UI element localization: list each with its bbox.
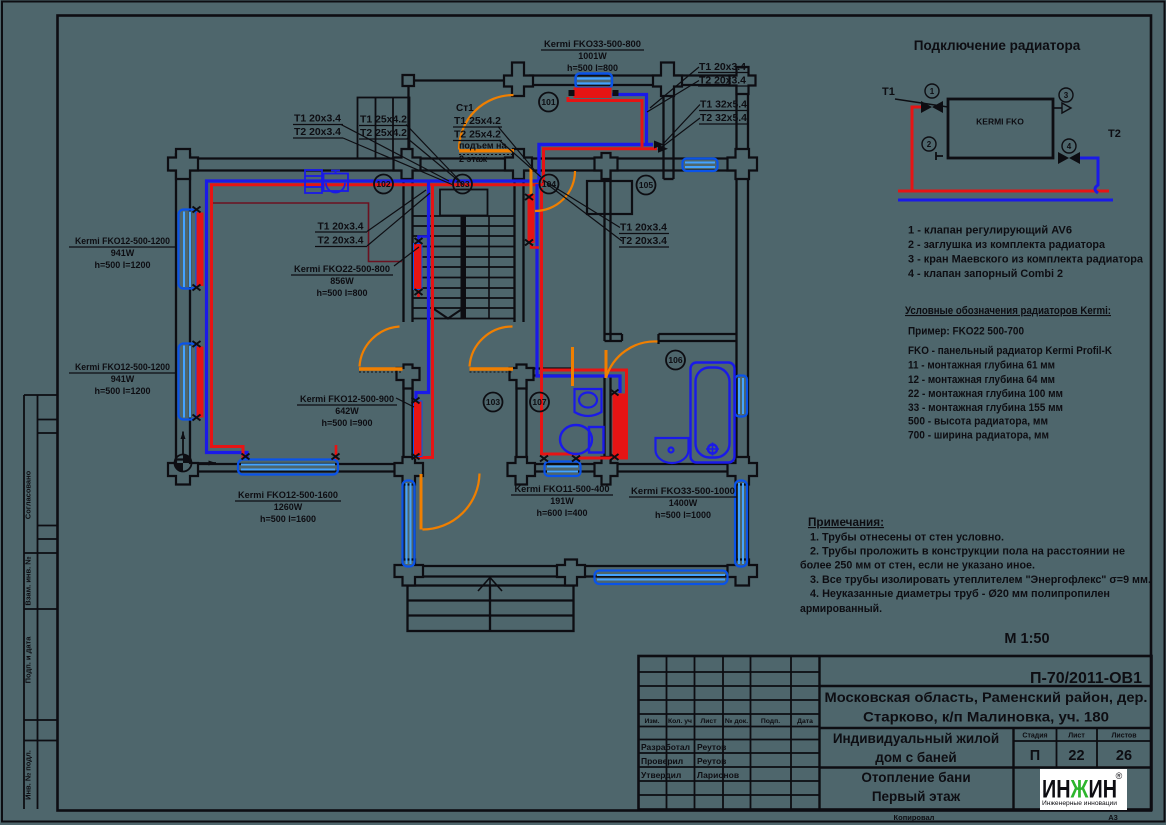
door arc room101 <box>459 95 514 150</box>
svg-text:Пример: FKO22 500-700: Пример: FKO22 500-700 <box>908 326 1024 338</box>
svg-text:h=500 l=900: h=500 l=900 <box>321 418 372 428</box>
pipe riser pair down to WC blue <box>537 184 620 393</box>
wall: right outer <box>735 85 737 578</box>
supply pipe stub <box>895 99 948 107</box>
wall: hall/room105 divider <box>603 171 605 342</box>
svg-text:22 - монтажная глубина 100 мм: 22 - монтажная глубина 100 мм <box>908 388 1063 400</box>
svg-text:1400W: 1400W <box>669 498 698 508</box>
fixture: bathtub <box>691 363 735 463</box>
svg-text:Т2 25х4.2: Т2 25х4.2 <box>454 130 501 141</box>
svg-text:Т2: Т2 <box>1108 128 1121 140</box>
steps entry arrow <box>489 577 491 586</box>
svg-text:Kermi FKO11-500-400: Kermi FKO11-500-400 <box>515 484 610 494</box>
svg-text:Т1 32х5.4: Т1 32х5.4 <box>700 100 747 111</box>
wall: stair left upper <box>402 171 404 323</box>
radiator FKO22-500-800 (stair) red bar <box>414 244 423 290</box>
svg-text:Реутов: Реутов <box>697 742 726 752</box>
svg-text:подъем на: подъем на <box>459 141 507 151</box>
vent valve 3 <box>1059 88 1073 102</box>
fixture: WC sink <box>575 389 602 416</box>
fixture: bath sink <box>656 438 689 463</box>
svg-text:Ст1: Ст1 <box>456 103 474 114</box>
radiator FKO33-500-800 (room 101) <box>569 74 619 99</box>
svg-text:дом с баней: дом с баней <box>875 750 956 765</box>
radiator label FKO22-500-800 <box>294 264 390 298</box>
svg-text:12 - монтажная глубина 64 мм: 12 - монтажная глубина 64 мм <box>908 374 1055 386</box>
radiator label FKO11-500-400 <box>515 484 610 518</box>
svg-text:1260W: 1260W <box>274 502 303 512</box>
svg-text:101: 101 <box>541 97 555 107</box>
pipe T2 main loop blue (left wall + top) <box>207 181 539 459</box>
svg-text:3. Все трубы изолировать утепл: 3. Все трубы изолировать утеплителем "Эн… <box>810 574 1151 586</box>
svg-text:Т1 25х4.2: Т1 25х4.2 <box>454 116 501 127</box>
svg-text:Т2 20х3.4: Т2 20х3.4 <box>620 236 667 247</box>
fixture: toilet <box>560 425 604 454</box>
svg-text:Взам. инв. №: Взам. инв. № <box>24 556 33 605</box>
numbered legend <box>908 225 1144 281</box>
steps box <box>408 586 574 632</box>
plug 2 <box>922 137 936 151</box>
svg-text:941W: 941W <box>111 248 135 258</box>
svg-text:Kermi FKO12-500-1200: Kermi FKO12-500-1200 <box>75 362 170 372</box>
svg-text:Подключение радиатора: Подключение радиатора <box>914 38 1081 53</box>
svg-text:107: 107 <box>532 397 546 407</box>
blue return run <box>898 158 1113 200</box>
svg-text:h=500 l=1600: h=500 l=1600 <box>260 514 316 524</box>
svg-text:Подп.: Подп. <box>761 718 780 725</box>
pipe label pair L6 <box>318 222 364 247</box>
svg-text:Согласовано: Согласовано <box>24 470 33 519</box>
svg-text:Т2 32х5.4: Т2 32х5.4 <box>700 113 747 124</box>
wall: between 101 and 105 <box>662 85 664 171</box>
maroon 2nd floor outline <box>212 203 403 262</box>
svg-text:Т2 20х3.4: Т2 20х3.4 <box>294 127 341 138</box>
wall: left outer line <box>175 153 177 472</box>
leader lines <box>341 67 700 407</box>
svg-text:h=500 l=800: h=500 l=800 <box>316 288 367 298</box>
radiator FKO11-500-400 (WC) <box>545 462 581 477</box>
svg-text:®: ® <box>1116 771 1123 781</box>
valve assembly on top pipe run <box>305 170 348 193</box>
svg-text:Копировал: Копировал <box>894 813 935 822</box>
pipe label pair L5 <box>700 100 747 125</box>
valve X marks <box>193 194 619 462</box>
stair down arrow <box>431 307 465 319</box>
svg-text:Kermi FKO12-500-1200: Kermi FKO12-500-1200 <box>75 236 170 246</box>
svg-text:Т2 25х4.2: Т2 25х4.2 <box>360 128 407 139</box>
red supply run <box>898 107 1109 191</box>
wall: bottom-left inner <box>170 463 411 465</box>
svg-text:2 этаж: 2 этаж <box>459 154 488 164</box>
svg-text:191W: 191W <box>550 496 574 506</box>
pipe room101 red loop <box>568 97 642 147</box>
door entrance leaf <box>420 474 423 530</box>
svg-text:3 - кран Маевского из комплект: 3 - кран Маевского из комплекта радиатор… <box>908 254 1144 266</box>
radiator label FKO12-500-1200 lower <box>75 362 170 396</box>
svg-text:Т2 20х3.4: Т2 20х3.4 <box>699 76 746 87</box>
svg-text:h=500 l=800: h=500 l=800 <box>567 63 618 73</box>
pipe label pair L4 <box>699 62 746 87</box>
svg-text:Отопление бани: Отопление бани <box>861 770 970 785</box>
radiator label FKO12-500-1600 <box>238 490 338 524</box>
svg-text:11 - монтажная глубина 61 мм: 11 - монтажная глубина 61 мм <box>908 360 1055 372</box>
pipe red stub at bottom radiator right <box>335 445 338 460</box>
door bath leaf <box>605 350 608 378</box>
stair handrail line <box>488 216 490 318</box>
svg-text:Kermi FKO33-500-800: Kermi FKO33-500-800 <box>544 39 641 49</box>
title block grid <box>639 656 1152 810</box>
wall: bottom-right segment <box>514 463 748 465</box>
svg-text:Т2 20х3.4: Т2 20х3.4 <box>318 236 364 247</box>
svg-text:Реутов: Реутов <box>697 756 726 766</box>
svg-text:2 - заглушка из комплекта ради: 2 - заглушка из комплекта радиатора <box>908 239 1106 251</box>
door WC leaf <box>571 347 574 386</box>
svg-text:более 250 мм от стен, если не: более 250 мм от стен, если не указано ин… <box>800 560 1035 572</box>
svg-text:Т1: Т1 <box>882 86 895 98</box>
pipe room101 blue loop <box>612 95 647 144</box>
svg-text:Kermi FKO22-500-800: Kermi FKO22-500-800 <box>294 264 390 274</box>
svg-text:Изм.: Изм. <box>644 718 659 725</box>
wall: main top outer line <box>170 157 748 159</box>
wall: stair right upper <box>513 171 515 323</box>
radiator label FKO33-500-800 top <box>544 39 641 73</box>
wall: jamb L near bath door <box>605 333 623 335</box>
svg-text:Стадия: Стадия <box>1022 733 1047 740</box>
INJIN logo <box>1040 769 1127 810</box>
pipe label pair L2 (outside stairs) <box>360 115 407 140</box>
svg-text:Ларионов: Ларионов <box>697 770 739 780</box>
svg-text:2: 2 <box>927 140 932 149</box>
svg-text:1 - клапан регулирующий AV6: 1 - клапан регулирующий AV6 <box>908 225 1072 237</box>
title block outer box <box>639 656 1152 810</box>
door entrance arc <box>423 474 480 530</box>
svg-text:№ док.: № док. <box>725 718 748 725</box>
svg-text:h=500 l=1000: h=500 l=1000 <box>655 510 711 520</box>
pipe riser pair down to WC red <box>542 188 627 458</box>
radiator FKO12-500-1200 upper left <box>179 210 204 289</box>
svg-text:Т1 20х3.4: Т1 20х3.4 <box>294 114 341 125</box>
svg-text:Т1 25х4.2: Т1 25х4.2 <box>360 115 407 126</box>
svg-text:102: 102 <box>376 179 390 189</box>
door bath arc <box>606 341 658 378</box>
pipe hall radiator stub <box>531 244 539 248</box>
svg-text:4: 4 <box>1067 142 1072 151</box>
svg-text:Т1 20х3.4: Т1 20х3.4 <box>699 62 746 73</box>
svg-text:Инв. № подл.: Инв. № подл. <box>24 750 33 800</box>
pipe label pair L8 <box>620 223 667 248</box>
radiator FKO12-500-1600 bottom <box>238 460 338 475</box>
svg-text:Примечания:: Примечания: <box>808 517 884 529</box>
wall: WC top <box>517 367 574 369</box>
svg-text:500 - высота радиатора, мм: 500 - высота радиатора, мм <box>908 416 1048 428</box>
insulated pipe porch left (blue) <box>403 481 415 567</box>
svg-text:Проверил: Проверил <box>641 756 683 766</box>
stair treads <box>413 216 514 319</box>
pipe FKO22 blue connector <box>419 237 429 244</box>
svg-text:3: 3 <box>1064 91 1069 100</box>
wall: room101 left <box>407 85 409 159</box>
radiator label FKO12-500-900 <box>300 394 394 428</box>
svg-text:Kermi FKO12-500-1600: Kermi FKO12-500-1600 <box>238 490 338 500</box>
svg-text:22: 22 <box>1068 748 1084 764</box>
wall: hall right lower <box>515 371 517 464</box>
svg-text:h=500 l=1200: h=500 l=1200 <box>94 260 150 270</box>
radiator small top right wall <box>683 159 718 172</box>
svg-text:Лист: Лист <box>1068 733 1085 740</box>
svg-text:Подп. и дата: Подп. и дата <box>24 636 33 684</box>
log-joint pluses <box>168 63 757 586</box>
pipe FKO22 red stub <box>417 289 420 297</box>
svg-text:1. Трубы отнесены от стен усло: 1. Трубы отнесены от стен условно. <box>810 532 1004 544</box>
radiator label FKO33-500-1000 <box>631 486 735 520</box>
svg-text:Кол. уч: Кол. уч <box>668 718 692 725</box>
valve 4 <box>1062 139 1076 153</box>
svg-text:700 - ширина радиатора, мм: 700 - ширина радиатора, мм <box>908 430 1049 442</box>
pipe center blue drop <box>416 182 429 401</box>
svg-text:4 - клапан запорный Combi 2: 4 - клапан запорный Combi 2 <box>908 268 1063 280</box>
svg-text:Т1 20х3.4: Т1 20х3.4 <box>620 223 667 234</box>
left column table <box>24 394 58 396</box>
wall: porch bottom <box>397 565 753 567</box>
room number circles <box>374 93 685 412</box>
svg-text:М 1:50: М 1:50 <box>1004 631 1049 647</box>
svg-text:А3: А3 <box>1108 813 1118 822</box>
wall: WC/bath divider lower <box>603 375 605 464</box>
svg-text:h=500 l=1200: h=500 l=1200 <box>94 386 150 396</box>
title block small header texts <box>644 718 813 725</box>
door hall/105 arc <box>535 171 575 211</box>
radiator bath FKO33-500-1000 red bar <box>613 394 626 458</box>
svg-text:Kermi FKO33-500-1000: Kermi FKO33-500-1000 <box>631 486 735 496</box>
svg-text:Московская область, Раменский: Московская область, Раменский район, дер… <box>825 690 1148 705</box>
pipe WC red lower branch <box>542 370 578 454</box>
valve 1 <box>921 101 943 113</box>
wall: bottom-left outer <box>170 470 411 472</box>
stair landing box <box>440 190 488 216</box>
radiator FKO12-500-900 red bar <box>414 401 423 457</box>
svg-text:33 - монтажная глубина 155 мм: 33 - монтажная глубина 155 мм <box>908 402 1063 414</box>
svg-text:105: 105 <box>639 180 653 190</box>
svg-text:Т1 20х3.4: Т1 20х3.4 <box>318 222 364 233</box>
outside staircase to 2nd floor <box>358 98 410 159</box>
radiator FKO12-500-1200 lower left <box>179 344 204 420</box>
bath right small radiator (blue) <box>735 376 747 417</box>
svg-text:Листов: Листов <box>1111 733 1137 740</box>
wall: stair left lower (door jamb to room) <box>402 371 404 464</box>
trunk arrowheads <box>654 141 664 149</box>
insulated pipe bottom right vertical (blue) <box>735 481 747 567</box>
wall: main top inner line <box>170 169 748 171</box>
svg-text:941W: 941W <box>111 374 135 384</box>
pipe center red drop <box>416 185 433 458</box>
fixture: washing machine room105 <box>587 181 632 214</box>
door leaf room101 <box>459 149 514 152</box>
pipe trunk red T1 32x5.4 <box>544 149 658 185</box>
door room103 leaf <box>359 367 403 370</box>
svg-text:Условные обозначения радиаторо: Условные обозначения радиаторов Kermi: <box>905 305 1111 317</box>
insulated pipe bottom horizontal (blue) <box>595 571 728 585</box>
post below wall 101/105 <box>662 171 664 180</box>
svg-text:1001W: 1001W <box>578 51 607 61</box>
stair stringer <box>461 216 467 319</box>
wall: upper rooms top double <box>529 74 742 76</box>
svg-text:Первый этаж: Первый этаж <box>872 789 961 804</box>
svg-text:1: 1 <box>930 87 935 96</box>
svg-text:Дата: Дата <box>797 718 813 725</box>
svg-text:армированный.: армированный. <box>800 603 882 615</box>
svg-text:Утвердил: Утвердил <box>641 770 681 780</box>
svg-text:2. Трубы проложить в конструкц: 2. Трубы проложить в конструкции пола на… <box>810 546 1125 558</box>
pipe T1 main loop red (left wall + top) <box>212 185 544 459</box>
svg-text:Старково, к/п Малиновка, уч. 1: Старково, к/п Малиновка, уч. 180 <box>863 710 1109 725</box>
door hall lower arc <box>470 326 513 366</box>
door hall lower leaf <box>470 367 514 370</box>
pipe label pair L1 <box>294 114 341 139</box>
svg-text:856W: 856W <box>330 276 354 286</box>
svg-text:П-70/2011-ОВ1: П-70/2011-ОВ1 <box>1030 670 1142 687</box>
svg-text:4. Неуказанные диаметры труб -: 4. Неуказанные диаметры труб - Ø20 мм по… <box>810 588 1110 600</box>
svg-text:Разработал: Разработал <box>641 742 690 752</box>
svg-text:26: 26 <box>1116 748 1132 764</box>
svg-text:FKO - панельный радиатор Kerm: FKO - панельный радиатор Kermi Profil-K <box>908 345 1112 357</box>
benchmark symbol <box>175 432 217 472</box>
radiator label FKO12-500-1200 upper <box>75 236 170 270</box>
wall: upper rooms top single segment <box>408 79 508 81</box>
wall: bath top <box>659 333 737 335</box>
radiator body U <box>948 99 1053 158</box>
svg-text:Kermi FKO12-500-900: Kermi FKO12-500-900 <box>300 394 394 404</box>
door room103 arc <box>360 327 400 367</box>
left column rotated labels <box>24 470 33 800</box>
title block signature rows <box>641 742 739 780</box>
svg-text:Индивидуальный жилой: Индивидуальный жилой <box>833 731 999 746</box>
wall: left inner line <box>189 153 191 472</box>
svg-text:П: П <box>1030 748 1040 764</box>
wall: porch left <box>402 472 404 579</box>
door hall/105 leaf <box>530 168 533 213</box>
radiator hall (near stair) red bar <box>528 194 535 243</box>
svg-text:Лист: Лист <box>700 718 717 725</box>
svg-text:106: 106 <box>668 355 682 365</box>
pipe trunk blue T2 32x5.4 <box>539 145 653 182</box>
svg-text:Инженерные инновации: Инженерные инновации <box>1042 800 1117 807</box>
stage/sheet cells <box>1022 733 1137 740</box>
svg-text:642W: 642W <box>335 406 359 416</box>
svg-text:103: 103 <box>486 397 500 407</box>
svg-text:KERMI FKO: KERMI FKO <box>976 117 1024 127</box>
svg-text:h=600 l=400: h=600 l=400 <box>536 508 587 518</box>
